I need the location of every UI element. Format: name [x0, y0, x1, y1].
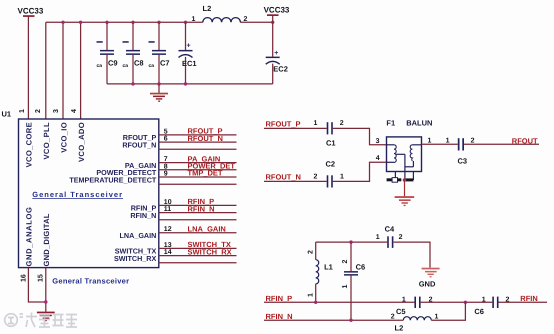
ground GND (named) — [419, 268, 440, 289]
svg-text:14: 14 — [164, 249, 172, 256]
watermark — [5, 313, 77, 328]
svg-text:VCO_IO: VCO_IO — [59, 122, 68, 153]
svg-text:11: 11 — [164, 206, 172, 213]
wire U1 pin 15 — [45, 268, 47, 312]
wire pin 8 — [159, 169, 237, 171]
svg-text:C1: C1 — [326, 138, 336, 147]
wire C1 to balun pin 3 — [333, 128, 387, 144]
ground (cap bank) — [150, 84, 168, 102]
svg-text:VCO_ADO: VCO_ADO — [77, 122, 86, 162]
svg-text:RFOUT: RFOUT — [512, 136, 538, 145]
svg-text:TMP_DET: TMP_DET — [188, 169, 223, 178]
svg-text:General Transceiver: General Transceiver — [52, 277, 129, 286]
svg-text:VCC33: VCC33 — [18, 7, 44, 16]
inductor L1 — [308, 242, 333, 302]
junction at L1 bottom — [314, 301, 317, 304]
svg-text:ca: ca — [123, 63, 129, 69]
svg-text:1: 1 — [314, 120, 318, 127]
svg-text:RFIN_N: RFIN_N — [130, 211, 156, 220]
wire balun pin1 to C3 — [422, 143, 458, 145]
svg-text:GND_DIGITAL: GND_DIGITAL — [42, 213, 51, 266]
wire pin 13 — [159, 247, 237, 249]
svg-text:1: 1 — [446, 138, 450, 145]
U1 inside pin names (right side) — [69, 133, 157, 263]
wire C5 to C6 — [421, 301, 493, 303]
svg-text:EC2: EC2 — [273, 65, 288, 74]
wire pin 14 — [159, 255, 237, 257]
inductor L2 (series RFIN_N) — [391, 313, 439, 332]
svg-text:U1: U1 — [2, 110, 12, 119]
capacitor C8 — [123, 22, 144, 84]
junction on bus at pin4 — [79, 21, 82, 24]
svg-text:3: 3 — [53, 109, 60, 113]
svg-text:ca: ca — [149, 63, 155, 69]
svg-text:LNA_GAIN: LNA_GAIN — [120, 231, 157, 240]
svg-text:C6: C6 — [356, 262, 366, 271]
svg-text:1: 1 — [192, 16, 196, 23]
svg-text:13: 13 — [164, 242, 172, 249]
wire pin 9 — [159, 176, 237, 178]
svg-text:1: 1 — [402, 296, 406, 303]
capacitor EC2 (polarized) — [266, 22, 288, 84]
ground (balun center tap) — [395, 196, 415, 206]
svg-text:2: 2 — [399, 234, 403, 241]
junction on bus at C8 — [131, 21, 134, 24]
svg-text:4: 4 — [376, 155, 380, 162]
svg-text:C2: C2 — [326, 160, 336, 169]
svg-text:2: 2 — [314, 173, 318, 180]
svg-text:2: 2 — [342, 260, 349, 264]
svg-text:GND_ANALOG: GND_ANALOG — [25, 206, 34, 266]
wire stub below pin 6 — [159, 148, 237, 150]
wire RFIN_P row — [264, 301, 414, 303]
wire U1 pin 2 vertical to bus — [45, 22, 47, 119]
svg-text:1: 1 — [342, 285, 349, 289]
svg-text:VCO_PLL: VCO_PLL — [42, 122, 51, 159]
wire to balun ground — [404, 180, 406, 196]
inductor L2 (top filter) — [192, 4, 248, 23]
svg-text:RFOUT_P: RFOUT_P — [266, 120, 301, 129]
svg-text:1: 1 — [428, 138, 432, 145]
svg-text:1: 1 — [19, 109, 26, 113]
junction lower bus at EC1 — [184, 82, 187, 85]
wire stub below pin 11 — [159, 219, 237, 221]
wire pin 10 — [159, 204, 237, 206]
svg-text:2: 2 — [471, 138, 475, 145]
wire RFIN_N row — [264, 319, 403, 321]
capacitor C2 — [314, 160, 345, 188]
component (bead) under balun — [387, 172, 414, 183]
wire RFOUT_P to C1 — [264, 127, 327, 129]
svg-text:C9: C9 — [108, 59, 118, 68]
svg-text:C6: C6 — [474, 307, 484, 316]
wire C2 to balun pin 4 — [333, 162, 387, 181]
wire RFOUT_N to C2 — [264, 180, 327, 182]
svg-text:RFIN_N: RFIN_N — [266, 312, 293, 321]
wire VCC33 top bus horizontal — [46, 21, 203, 23]
svg-text:2: 2 — [35, 109, 42, 113]
capacitor C6 (shunt) — [342, 242, 365, 320]
junction lower bus at C7/ground — [157, 82, 160, 85]
wire U1 pin 4 vertical — [80, 22, 82, 119]
wire VCC33 stem to U1 pin 1 — [27, 17, 29, 120]
svg-text:SWITCH_RX: SWITCH_RX — [114, 254, 157, 263]
svg-text:6: 6 — [164, 136, 168, 143]
svg-text:L2: L2 — [395, 323, 404, 332]
wire C6 to RFIN — [499, 301, 548, 303]
svg-text:2: 2 — [391, 313, 395, 320]
svg-text:ca: ca — [97, 63, 103, 69]
svg-text:8: 8 — [164, 163, 168, 170]
wire stub below pin 9 — [159, 183, 237, 185]
pin numbers 5-14 — [164, 128, 172, 256]
svg-text:F1: F1 — [386, 119, 395, 128]
junction at C6 shunt bottom — [349, 319, 352, 322]
junction on bus at C9 — [105, 21, 108, 24]
wire C4 to gnd corner — [394, 242, 430, 268]
capacitor EC1 (polarized) — [179, 22, 197, 84]
junction under balun — [403, 178, 407, 182]
op-amp U1 box (General Transceiver IC) — [2, 110, 159, 268]
svg-text:1: 1 — [308, 293, 315, 297]
svg-text:VCC33: VCC33 — [264, 6, 290, 15]
wire pin 6 — [159, 141, 237, 143]
junction at C6 top — [349, 240, 352, 243]
svg-text:C3: C3 — [458, 157, 468, 166]
capacitor C7 — [149, 22, 170, 84]
junction on bus at C7 — [157, 21, 160, 24]
svg-text:VCO_CORE: VCO_CORE — [25, 122, 34, 167]
svg-text:RFIN_N: RFIN_N — [188, 204, 215, 213]
wire U1 pin 3 vertical — [62, 22, 64, 119]
svg-text:L1: L1 — [324, 262, 333, 271]
capacitor C6 (series at RFIN) — [474, 296, 509, 316]
wire pin 12 — [159, 232, 237, 234]
svg-text:LNA_GAIN: LNA_GAIN — [188, 224, 226, 233]
wire C3 to RFOUT — [464, 143, 539, 145]
wire bus after L2 to VCC33 right — [240, 21, 272, 23]
capacitor C5 — [396, 296, 433, 316]
svg-text:10: 10 — [164, 199, 172, 206]
svg-text:EC1: EC1 — [182, 59, 197, 68]
svg-text:BALUN: BALUN — [406, 119, 432, 128]
svg-text:5: 5 — [164, 128, 168, 135]
svg-text:RFOUT_N: RFOUT_N — [122, 140, 156, 149]
svg-text:12: 12 — [164, 226, 172, 233]
wire lower bus under cap bank — [107, 83, 273, 85]
wire top of RX match network — [316, 241, 388, 243]
svg-text:1: 1 — [340, 173, 344, 180]
wire U1 pin 16 — [28, 268, 45, 302]
svg-text:GND: GND — [419, 279, 436, 288]
svg-text:RFIN: RFIN — [520, 294, 538, 303]
junction on bus at EC1 — [184, 21, 187, 24]
svg-text:2: 2 — [244, 16, 248, 23]
svg-text:1: 1 — [435, 313, 439, 320]
svg-text:1: 1 — [482, 296, 486, 303]
wire pin 5 — [159, 134, 237, 136]
capacitor C9 — [97, 22, 118, 84]
svg-text:C7: C7 — [160, 59, 170, 68]
net labels at U1 right pins — [188, 127, 236, 257]
svg-text:RFOUT_N: RFOUT_N — [266, 173, 301, 182]
wire L2 to riser — [431, 302, 465, 320]
capacitor C3 — [446, 138, 475, 166]
wire pin 7 — [159, 162, 237, 164]
svg-text:4: 4 — [71, 109, 78, 113]
svg-text:+: + — [187, 43, 191, 50]
U1 right pin stubs group — [159, 135, 237, 263]
svg-text:9: 9 — [164, 171, 168, 178]
svg-text:C8: C8 — [134, 59, 144, 68]
svg-text:1: 1 — [376, 234, 380, 241]
svg-text:3: 3 — [376, 138, 380, 145]
svg-text:C5: C5 — [396, 307, 406, 316]
power symbol VCC33 (left) — [18, 7, 44, 17]
svg-text:+: + — [274, 50, 278, 57]
wire stub below pin 14 — [159, 262, 237, 264]
junction at pin15/16 join — [44, 300, 47, 303]
junction where L2 riser meets — [464, 301, 467, 304]
svg-text:16: 16 — [21, 274, 28, 282]
junction lower bus at C8 — [131, 82, 134, 85]
svg-text:RFIN_P: RFIN_P — [266, 294, 293, 303]
svg-text:C4: C4 — [385, 225, 395, 234]
ground (under U1) — [37, 312, 55, 322]
junction on bus at pin3 — [61, 21, 64, 24]
svg-text:2: 2 — [308, 250, 315, 254]
power symbol VCC33 (right) — [264, 6, 290, 23]
svg-text:2: 2 — [340, 120, 344, 127]
svg-text:7: 7 — [164, 156, 168, 163]
svg-text:L2: L2 — [203, 4, 212, 13]
svg-text:SWITCH_RX: SWITCH_RX — [188, 247, 232, 256]
svg-text:RFOUT_N: RFOUT_N — [188, 134, 223, 143]
transformer F1 BALUN — [386, 119, 432, 179]
capacitor C1 — [314, 120, 344, 147]
svg-text:15: 15 — [37, 274, 44, 282]
capacitor C4 — [376, 225, 403, 248]
svg-text:General Transceiver: General Transceiver — [32, 190, 123, 199]
wire pin 11 — [159, 212, 237, 214]
junction on bus at VCC33 right — [271, 21, 274, 24]
svg-text:TEMPERATURE_DETECT: TEMPERATURE_DETECT — [69, 175, 157, 184]
